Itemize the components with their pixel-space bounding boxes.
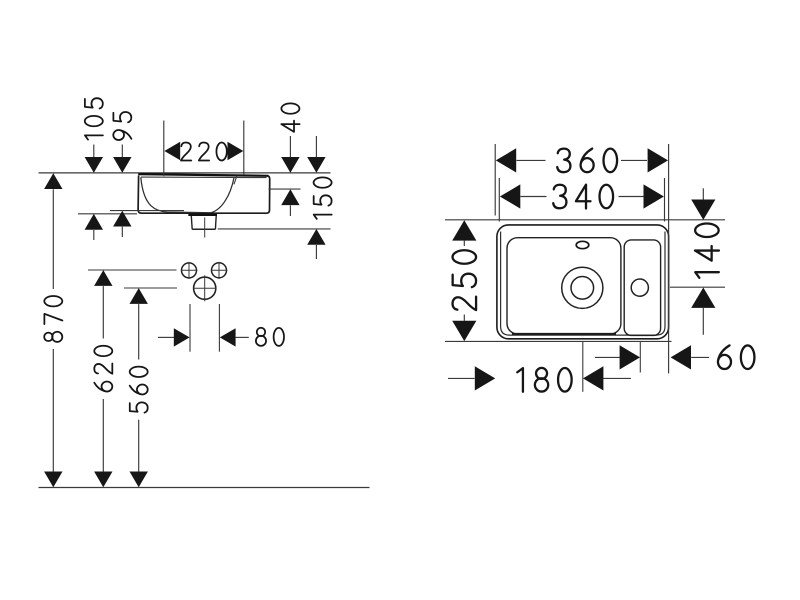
basin rim inner edge line (side view) — [141, 176, 267, 179]
basin outer profile (side view) — [138, 174, 270, 213]
dimension 220 — [164, 121, 244, 177]
drain flange (side view) — [188, 213, 217, 216]
basin rim inner edge (top view) — [501, 232, 665, 336]
bowl interior section curve (side view) — [141, 177, 234, 213]
dimension 60 — [595, 345, 754, 369]
dimension 140 — [670, 188, 725, 334]
overflow slot — [576, 241, 589, 248]
extension line drain center (below) — [582, 341, 584, 391]
tap deck outline (top view) — [624, 240, 660, 336]
tap hole right circle with cross (projection) — [211, 262, 228, 279]
top extension line (250/140) — [445, 219, 725, 221]
dimension 250 — [452, 220, 476, 341]
bowl outline (top view) — [507, 238, 621, 334]
extension line tap hole center (below) — [639, 341, 641, 372]
dimension 870 — [44, 173, 62, 487]
extension lines 340 — [499, 178, 664, 222]
dimension 150 — [218, 136, 332, 259]
drain center line (side view) — [204, 218, 206, 238]
extension line 560 level — [124, 287, 177, 289]
extension line 620 level — [88, 269, 197, 271]
dimension 40 — [269, 103, 301, 216]
drain outer circle (top view) — [562, 267, 603, 308]
dimension 105 — [78, 98, 137, 240]
floor line — [39, 487, 370, 489]
dimension 340 — [500, 184, 664, 208]
tap hole circle (top view) — [631, 279, 648, 296]
dimension 180 — [448, 366, 631, 391]
extension lines 360 — [495, 144, 668, 373]
drain hole circle with cross (projection) — [193, 275, 216, 301]
dimension 95 — [110, 112, 184, 237]
dimension 560 — [130, 288, 148, 487]
drain inner circle (top view) — [571, 277, 594, 300]
dimension 360 — [496, 148, 668, 172]
wall reference line (side view) — [39, 172, 331, 174]
drain tailpipe (side view) — [191, 216, 216, 229]
dimension 80 — [158, 304, 284, 352]
bottom extension line (250/180) — [445, 340, 672, 342]
tap hole left circle with cross (projection) — [182, 262, 197, 279]
tap deck slanted edge (side view) — [234, 176, 237, 185]
basin outer rim (top view) — [497, 225, 669, 339]
dimension 620 — [94, 270, 112, 487]
